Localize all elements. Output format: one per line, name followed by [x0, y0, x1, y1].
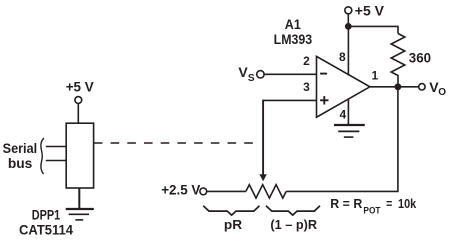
wire +5V terminal down [347, 14, 349, 27]
wire serial bus upper [46, 146, 66, 148]
ground (DPP1) [66, 209, 94, 220]
svg-text:Serial: Serial [3, 141, 38, 156]
svg-text:4: 4 [339, 108, 346, 122]
wire +5V node to resistor top [348, 26, 398, 33]
svg-text:1: 1 [371, 69, 378, 83]
ground (op-amp pin 4) [334, 125, 365, 137]
terminal VO (open circle) [419, 84, 425, 90]
resistor R 360 (zigzag) [391, 34, 405, 84]
svg-text:DPP1: DPP1 [32, 208, 61, 223]
wire pin 4 (to ground) [347, 98, 349, 124]
wire pot right to output node column [286, 190, 398, 192]
DPP1 chip body [66, 123, 93, 188]
svg-text:+5 V: +5 V [66, 79, 94, 94]
svg-text:S: S [248, 73, 255, 84]
wire pin 3 to wiper (horizontal) [262, 99, 316, 101]
svg-text:LM393: LM393 [274, 32, 313, 47]
junction dot +5V node [345, 23, 352, 30]
terminal VS (open circle) [257, 71, 264, 78]
dashed control line from DPP to pot wiper [94, 142, 255, 144]
wire DPP bottom lead [78, 188, 80, 209]
wire output node down to pot right [397, 87, 399, 192]
wire +2.5V to pot left [207, 190, 246, 192]
label VS [238, 64, 255, 84]
terminal +5V right (open circle) [345, 7, 352, 14]
serial bus brace [41, 138, 44, 174]
wire from +5V terminal to DPP top [77, 103, 79, 123]
terminal +5V left (open circle) [75, 97, 82, 104]
svg-text:V: V [238, 64, 248, 80]
svg-text:pR: pR [224, 217, 243, 232]
wire pin 8 (power) [347, 26, 349, 75]
svg-text:2: 2 [303, 54, 310, 68]
svg-text:O: O [438, 87, 446, 98]
svg-text:3: 3 [303, 80, 310, 94]
terminal +2.5V (open circle) [200, 188, 207, 195]
svg-text:+2.5 V: +2.5 V [161, 183, 200, 198]
wire pin 3 to wiper (vertical) [262, 100, 264, 176]
wire VS to pin 2 [264, 73, 316, 75]
label R = RPOT = 10k [330, 197, 416, 217]
svg-text:360: 360 [409, 50, 431, 65]
svg-text:R = R: R = R [330, 197, 362, 211]
svg-text:CAT5114: CAT5114 [19, 222, 73, 237]
potentiometer R (zigzag) [246, 185, 286, 198]
svg-text:POT: POT [363, 206, 380, 217]
svg-text:(1 – p)R: (1 – p)R [270, 217, 317, 232]
svg-text:=: = [386, 197, 392, 211]
svg-text:A1: A1 [285, 17, 301, 32]
wiper arrowhead [259, 174, 266, 181]
brace under (1-p)R [266, 206, 320, 215]
op-amp U A1 triangle [317, 56, 370, 117]
brace under pR [203, 206, 259, 215]
svg-text:8: 8 [339, 50, 346, 64]
label VO [429, 79, 446, 98]
wire serial bus lower [46, 160, 66, 162]
wire op-amp output to VO [370, 86, 419, 88]
svg-text:10k: 10k [398, 197, 416, 211]
plus symbol [320, 96, 328, 104]
svg-text:+5 V: +5 V [355, 4, 384, 19]
junction dot output node [395, 83, 402, 90]
minus symbol [320, 73, 327, 75]
svg-text:bus: bus [8, 156, 33, 171]
